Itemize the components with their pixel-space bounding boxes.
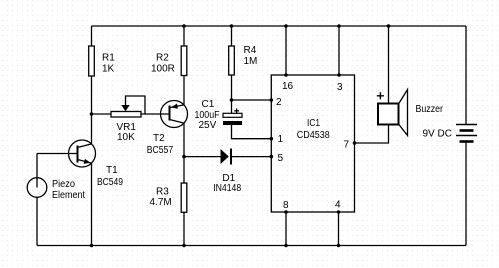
wire buzzer top lead — [388, 26, 390, 104]
wire VR1 right lead to T2 base — [141, 113, 170, 115]
svg-text:1K: 1K — [102, 64, 115, 75]
wire IC pin 7 to buzzer — [355, 125, 389, 144]
svg-text:BC549: BC549 — [97, 177, 123, 188]
wire diode cathode to pin 5 — [232, 156, 272, 158]
buzzer BZ1 — [377, 90, 444, 136]
potentiometer VR1 — [111, 105, 141, 143]
node diode tee — [182, 155, 186, 159]
svg-text:R3: R3 — [156, 187, 169, 198]
op-amp U1 : IC1 CD4538 box — [271, 75, 354, 212]
wire R1 bottom lead to T1 collector — [91, 76, 93, 144]
wire piezo top lead — [37, 154, 78, 188]
svg-text:1M: 1M — [244, 56, 258, 67]
wire R4 top lead — [231, 26, 233, 46]
wire top rail — [92, 25, 467, 27]
svg-text:4: 4 — [335, 200, 341, 211]
node R3 ground — [182, 244, 186, 248]
svg-text:T2: T2 — [153, 133, 165, 144]
wire battery top lead — [465, 26, 467, 125]
svg-text:7: 7 — [344, 140, 350, 151]
svg-text:R1: R1 — [102, 53, 115, 64]
svg-text:5: 5 — [278, 153, 284, 164]
svg-text:16: 16 — [282, 81, 294, 92]
node pin5 — [270, 155, 274, 159]
svg-text:10K: 10K — [117, 132, 135, 143]
resistor R3 — [181, 183, 187, 212]
node R2 top — [182, 24, 186, 28]
svg-text:Piezo: Piezo — [52, 179, 75, 190]
wire IC pin 3 to rail — [338, 26, 340, 75]
svg-text:T1: T1 — [106, 165, 118, 176]
wire R4 bottom lead to C1 — [231, 75, 233, 113]
svg-text:25V: 25V — [199, 120, 217, 131]
node R4 C1 pin2 — [230, 98, 234, 102]
wire node pin2 branch — [232, 99, 272, 101]
node pin2 — [270, 98, 274, 102]
wire R1 top lead — [91, 26, 93, 46]
node emitter ground — [90, 244, 94, 248]
capacitor C1 — [195, 99, 243, 131]
svg-text:BC557: BC557 — [147, 145, 174, 156]
svg-text:Buzzer: Buzzer — [416, 104, 444, 115]
wire R2 bottom lead to T2 emitter — [183, 76, 185, 105]
node pin3 — [337, 73, 341, 77]
node pin3 top — [337, 24, 341, 28]
resistor R4 — [229, 46, 235, 75]
node pin8 — [284, 210, 288, 214]
wire R3 top lead — [183, 157, 185, 183]
transistor T1 BC549 — [69, 140, 96, 167]
svg-text:Element: Element — [52, 190, 85, 201]
svg-text:C1: C1 — [202, 99, 215, 110]
resistor R2 — [181, 46, 187, 76]
svg-text:IN4148: IN4148 — [213, 183, 241, 194]
svg-text:9V DC: 9V DC — [423, 129, 452, 140]
svg-text:IC1: IC1 — [307, 118, 320, 129]
piezo element P1 — [27, 178, 47, 198]
wire VR1 left lead — [92, 113, 112, 115]
wire battery bottom lead — [465, 142, 467, 246]
svg-text:R2: R2 — [156, 53, 169, 64]
wire C1 negative lead to pin 1 — [232, 125, 272, 139]
battery B1 9V — [456, 125, 477, 142]
wire piezo bottom lead — [36, 197, 38, 245]
wire IC pin 4 to ground rail — [338, 212, 340, 246]
node pin1 — [270, 137, 274, 141]
wire diode anode lead — [184, 156, 221, 158]
wire IC pin 8 to ground rail — [285, 212, 287, 246]
diode D1 IN4148 — [213, 149, 241, 194]
node pin7 — [353, 141, 357, 145]
node buzzer top — [387, 24, 391, 28]
wire R2 top lead — [183, 26, 185, 46]
node R4 top — [230, 24, 234, 28]
svg-text:3: 3 — [337, 82, 343, 93]
resistor R1 — [89, 46, 95, 76]
svg-text:CD4538: CD4538 — [297, 130, 330, 141]
wire VR1 wiper loop — [126, 96, 146, 114]
svg-text:1: 1 — [278, 134, 284, 145]
svg-text:100R: 100R — [151, 64, 175, 75]
svg-text:R4: R4 — [244, 45, 257, 56]
node pin16 top — [284, 24, 288, 28]
wire ground bottom rail — [37, 245, 466, 247]
wire T2 collector down to diode node — [183, 123, 185, 157]
wire IC pin 16 to rail — [285, 26, 287, 75]
svg-text:8: 8 — [283, 200, 289, 211]
node pin8 ground — [284, 244, 288, 248]
node VR1 tee — [90, 112, 94, 116]
node pin4 — [337, 210, 341, 214]
transistor T2 BC557 — [161, 101, 188, 128]
wire T1 emitter to ground rail — [91, 163, 93, 245]
node pin16 — [284, 73, 288, 77]
svg-text:4.7M: 4.7M — [150, 197, 172, 208]
node pin4 ground — [337, 244, 341, 248]
wire R3 bottom lead — [183, 212, 185, 245]
svg-text:2: 2 — [276, 97, 282, 108]
